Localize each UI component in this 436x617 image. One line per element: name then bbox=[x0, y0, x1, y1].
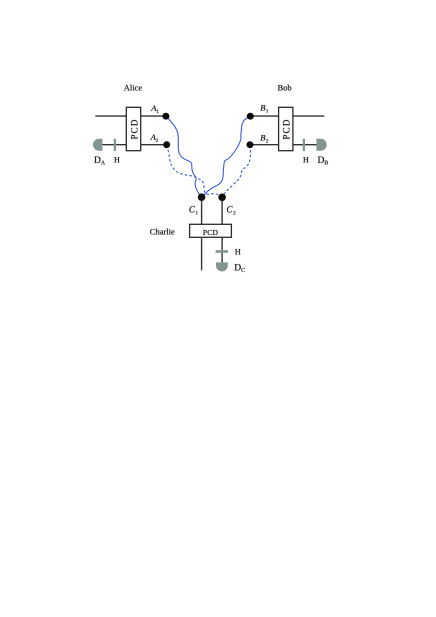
svg-text:2: 2 bbox=[233, 211, 236, 217]
svg-text:B: B bbox=[260, 103, 265, 113]
svg-text:PCD: PCD bbox=[282, 118, 292, 139]
svg-text:C: C bbox=[241, 268, 245, 274]
svg-text:Charlie: Charlie bbox=[150, 226, 175, 236]
svg-text:H: H bbox=[235, 248, 241, 257]
svg-text:H: H bbox=[303, 155, 309, 164]
svg-text:Alice: Alice bbox=[124, 83, 143, 93]
svg-text:B: B bbox=[260, 132, 265, 142]
svg-text:1: 1 bbox=[195, 211, 198, 217]
svg-text:1: 1 bbox=[266, 109, 269, 115]
svg-text:PCD: PCD bbox=[129, 118, 139, 139]
svg-text:2: 2 bbox=[156, 138, 159, 144]
svg-text:H: H bbox=[114, 155, 120, 164]
svg-text:A: A bbox=[101, 160, 106, 166]
svg-text:PCD: PCD bbox=[203, 228, 219, 237]
svg-text:B: B bbox=[324, 160, 328, 166]
svg-text:2: 2 bbox=[266, 138, 269, 144]
svg-text:Bob: Bob bbox=[278, 83, 292, 93]
svg-text:1: 1 bbox=[156, 109, 159, 115]
